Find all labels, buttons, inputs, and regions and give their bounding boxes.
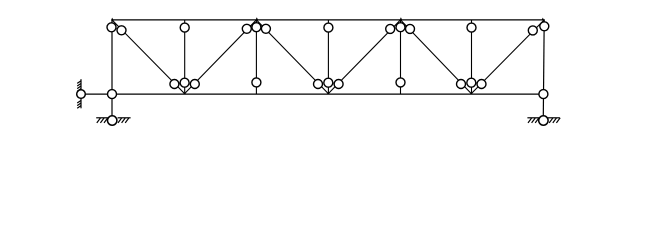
hinge a13 top-right on end post — [540, 22, 549, 31]
hinge a10 top of D5 — [406, 24, 415, 33]
hinge a3 top of V1 — [180, 23, 189, 32]
hinge a2 top of D1 — [117, 26, 126, 35]
diagonal member D1 — [112, 20, 185, 94]
hinge b10 bottom of V5 — [467, 78, 476, 87]
hinge a5 top of V2 — [252, 23, 261, 32]
vertical member V0 left end post — [111, 20, 113, 116]
hinge b5 bottom of D3 — [314, 80, 323, 89]
joint nub top-left corner — [111, 18, 114, 21]
hinge b3 bottom of D2 — [190, 80, 199, 89]
vertical member V2 — [255, 20, 257, 94]
diagonal member D4 — [328, 20, 400, 94]
pin support right (ground) — [527, 118, 560, 123]
hinge b4 bottom of V2 — [252, 78, 261, 87]
hinge a9 top of V4 — [396, 23, 405, 32]
node A bottom-left joint — [108, 90, 117, 99]
hinge a12 top of D6 — [528, 26, 537, 35]
node B bottom-right joint — [539, 90, 548, 99]
hinge a7 top of V3 — [324, 23, 333, 32]
pin support left (ground) — [96, 118, 130, 123]
bottom chord — [81, 93, 543, 95]
top chord — [112, 19, 545, 21]
diagonal member D2 — [185, 20, 257, 94]
pin circle left support — [108, 116, 117, 125]
diagonal member D5 — [401, 20, 472, 94]
joint nub peak node 2 — [399, 17, 402, 20]
hinge a4 top of D2 — [242, 24, 251, 33]
pin circle right support — [539, 116, 548, 125]
hinge b1 bottom of D1 — [170, 80, 179, 89]
hinge b6 bottom of V3 — [324, 78, 333, 87]
hinge a6 top of D3 — [261, 24, 270, 33]
hinge a11 top of V5 — [467, 23, 476, 32]
hinge of left wall roller — [77, 90, 86, 99]
vertical member V5 — [471, 20, 473, 94]
hinge a8 top of D4 — [386, 24, 395, 33]
hinge b7 bottom of D4 — [334, 80, 343, 89]
vertical member V1 — [184, 20, 186, 94]
diagonal member D6 — [471, 20, 544, 94]
hinge b9 bottom of D5 — [457, 80, 466, 89]
diagonal member D3 — [256, 20, 328, 94]
horizontal link support (left wall roller) — [77, 79, 81, 108]
hinge b11 bottom of D6 — [477, 80, 486, 89]
joint nub top-right corner — [541, 18, 544, 21]
hinge b2 bottom of V1 — [180, 78, 189, 87]
vertical member V3 — [327, 20, 329, 94]
hinge a1 top-left on end post — [107, 23, 116, 32]
vertical member V4 — [400, 20, 402, 94]
vertical member V6 right end post — [542, 20, 545, 116]
joint nub peak node 1 — [255, 17, 258, 20]
hinge b8 bottom of V4 — [396, 78, 405, 87]
